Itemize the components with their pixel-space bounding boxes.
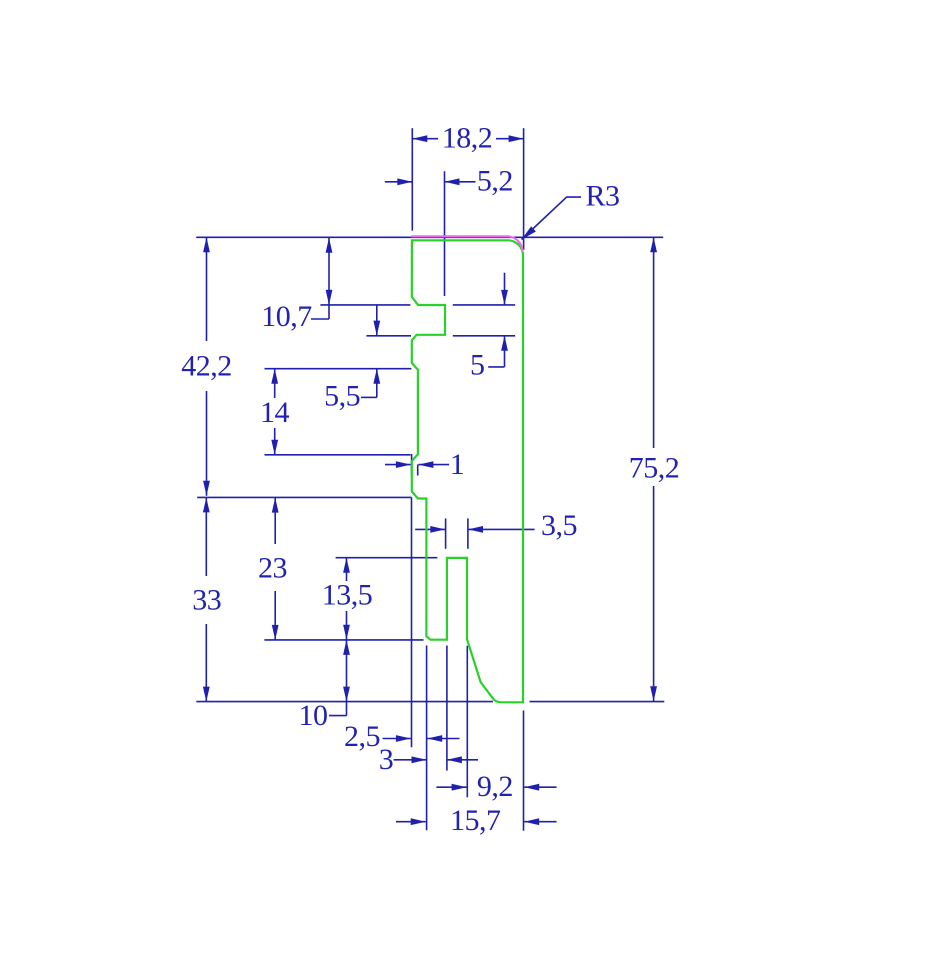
extension line y558 slot top xyxy=(336,557,438,559)
svg-text:1: 1 xyxy=(450,448,465,481)
extension line y305 right xyxy=(453,304,515,306)
svg-text:33: 33 xyxy=(192,584,221,617)
dimension 5,5 arrows xyxy=(373,321,380,384)
extension vertical x427 xyxy=(426,646,428,831)
svg-text:5,5: 5,5 xyxy=(324,380,360,413)
profile outline green xyxy=(412,240,523,702)
svg-text:18,2: 18,2 xyxy=(442,122,493,155)
svg-text:5: 5 xyxy=(470,349,485,382)
dimension 1 arrows xyxy=(396,461,434,468)
dimension 3 arrows xyxy=(412,756,462,763)
dimension 33 line xyxy=(205,497,207,701)
extension tick x468 for 3,5 xyxy=(467,518,469,548)
top datum line xyxy=(196,236,663,238)
svg-text:5,2: 5,2 xyxy=(477,165,513,198)
dimension 15,7 lines xyxy=(396,821,557,823)
radius leader R3 arrowhead xyxy=(522,226,536,239)
dimension 5,2 line xyxy=(385,181,476,183)
dimension 18,2 arrows xyxy=(412,135,523,142)
svg-text:75,2: 75,2 xyxy=(629,451,680,484)
extension vertical x412 top xyxy=(411,128,413,230)
extension line y336 right xyxy=(453,335,515,337)
dimension 5 arrows xyxy=(501,290,508,351)
dimension 23 arrows xyxy=(272,498,279,640)
dimension 15,7 arrows xyxy=(411,818,540,825)
extension tick x418 for 1 xyxy=(417,465,419,476)
dimension 13,5 arrows xyxy=(343,558,350,640)
dimension 3,5 arrows xyxy=(430,526,483,533)
svg-text:14: 14 xyxy=(260,396,290,429)
svg-text:10,7: 10,7 xyxy=(261,300,312,333)
dimension 14 arrows xyxy=(271,369,278,455)
dimension 5,2 arrows xyxy=(397,178,459,185)
svg-text:2,5: 2,5 xyxy=(344,720,380,753)
dimension 2,5 arrows xyxy=(396,735,442,742)
extension line y455 xyxy=(265,454,411,456)
svg-text:42,2: 42,2 xyxy=(181,350,232,383)
svg-text:13,5: 13,5 xyxy=(322,578,373,611)
dimension 75,2 line xyxy=(653,237,655,701)
svg-text:R3: R3 xyxy=(585,180,619,213)
dimension 2,5 lines xyxy=(383,738,460,740)
dimension 9,2 lines xyxy=(436,786,556,788)
dimension 10 lines xyxy=(329,640,347,716)
extension vertical x447 xyxy=(446,646,448,771)
extension tick x446 for 3,5 xyxy=(445,518,447,548)
dimension 9,2 arrows xyxy=(452,784,540,791)
svg-text:15,7: 15,7 xyxy=(450,804,501,837)
extension line y369 xyxy=(265,368,412,370)
extension line y640 xyxy=(264,639,423,641)
dimension 13,5 line xyxy=(346,558,348,640)
dimension 33 arrows xyxy=(203,497,210,701)
svg-text:23: 23 xyxy=(258,552,287,585)
dimension 10 arrows xyxy=(343,640,350,702)
dimension 23 line xyxy=(274,498,276,640)
bottom datum line xyxy=(196,701,493,703)
extension vertical x524 bottom xyxy=(523,711,525,831)
extension line y336 left xyxy=(366,335,411,337)
extension tick x412 for 1 xyxy=(411,454,413,476)
dimension 42,2 line xyxy=(206,237,208,496)
dimension 10,7 arrows xyxy=(326,238,333,305)
extension vertical x411 lower xyxy=(411,497,413,747)
extension vertical x524 top xyxy=(523,128,525,250)
dimension 75,2 arrows xyxy=(650,237,657,701)
dimension 5 lines xyxy=(488,273,504,367)
dimension 3,5 lines xyxy=(415,528,534,530)
dimension 3 lines xyxy=(394,759,478,761)
dimension 42,2 arrows xyxy=(203,237,210,496)
extension line y305 left xyxy=(320,304,410,306)
dimension 10,7 line xyxy=(311,238,329,319)
svg-text:3: 3 xyxy=(379,743,394,776)
svg-text:9,2: 9,2 xyxy=(477,770,513,803)
extension line y497 xyxy=(197,496,411,498)
svg-text:10: 10 xyxy=(299,699,328,732)
dimension 5,5 lines xyxy=(361,305,377,398)
extension vertical x444 for 5,2 xyxy=(444,171,446,296)
svg-text:3,5: 3,5 xyxy=(541,509,577,542)
radius leader R3 xyxy=(522,197,582,239)
profile top edge magenta xyxy=(411,236,522,252)
dimension 18,2 line xyxy=(412,138,523,140)
dimension 1 lines xyxy=(385,464,449,466)
dimension 14 line xyxy=(274,369,276,455)
extension vertical x467 xyxy=(466,646,468,797)
